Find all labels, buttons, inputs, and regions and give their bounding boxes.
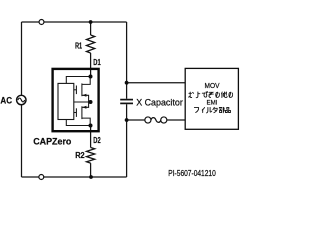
svg-text:R1: R1 (75, 41, 82, 50)
svg-text:CAPZero: CAPZero (33, 137, 72, 147)
svg-text:MOV: MOV (205, 83, 220, 90)
svg-text:AC: AC (0, 94, 12, 105)
svg-text:D1: D1 (93, 58, 101, 67)
svg-text:R2: R2 (75, 151, 85, 160)
svg-text:EMI: EMI (207, 100, 218, 107)
svg-text:D2: D2 (93, 136, 101, 145)
svg-text:PI-5607-041210: PI-5607-041210 (168, 169, 216, 178)
svg-text:X Capacitor: X Capacitor (136, 98, 183, 108)
